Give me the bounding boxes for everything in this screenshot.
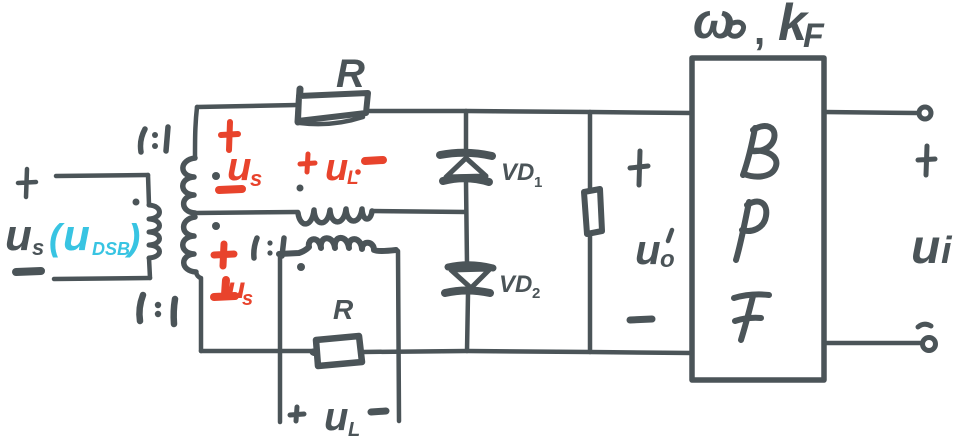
red minus upper [219, 189, 242, 190]
wire output bottom [824, 341, 920, 346]
svg-text:R: R [336, 52, 365, 96]
resistor R vertical [584, 189, 602, 234]
label ui [911, 221, 953, 274]
label VD2 [499, 271, 540, 302]
label F [734, 294, 769, 340]
transformer T1 secondary coil lower [183, 217, 196, 272]
svg-text:u: u [911, 221, 940, 274]
plus uo [630, 151, 648, 185]
wire bottom main left [201, 349, 313, 354]
wire source right vertical upper [148, 175, 149, 205]
source vs terminal minus [16, 271, 41, 272]
diode VD1 [440, 153, 492, 182]
wire diode branch top [464, 111, 469, 150]
wire center tap right [372, 211, 466, 212]
wire source right vertical lower [149, 258, 150, 278]
transformer T2 primary coil (uuu) [298, 209, 372, 224]
wire resistor branch top [588, 112, 593, 190]
resistor R bottom [313, 336, 362, 366]
svg-text:u: u [5, 211, 32, 260]
red plus upper secondary [221, 122, 238, 150]
BPF box [692, 58, 824, 380]
label uo' [635, 226, 675, 273]
diode VD2 [445, 265, 493, 293]
minus uL bottom [371, 411, 386, 412]
svg-text:u: u [325, 147, 348, 189]
transformer T2 secondary coil (mmm) [279, 238, 396, 254]
minus ui [918, 324, 931, 327]
wire source top [56, 175, 148, 176]
red minus middle [365, 160, 383, 161]
svg-text:R: R [333, 294, 354, 325]
terminal output bottom [923, 338, 936, 351]
label P [736, 202, 766, 260]
svg-text:L: L [348, 419, 360, 439]
transformer T1 secondary coil upper [183, 158, 195, 213]
terminal output top [919, 107, 931, 119]
source vs terminal plus [18, 169, 36, 197]
wire secondary bottom lead [196, 272, 201, 351]
plus uL bottom [290, 407, 304, 421]
svg-text:u: u [635, 226, 661, 273]
label uL bottom [324, 395, 360, 439]
wire top main right [369, 111, 692, 113]
wire uL branch left vertical [278, 254, 283, 422]
red plus lower secondary [214, 244, 234, 266]
wire source bottom [54, 278, 150, 279]
svg-text:s: s [32, 235, 44, 260]
polarity dot secondary lower [212, 222, 220, 230]
svg-text:o: o [660, 246, 675, 273]
svg-text:i: i [941, 230, 953, 272]
wire resistor branch bottom [588, 234, 593, 352]
wire bottom main right [362, 351, 692, 353]
svg-text:,: , [754, 9, 765, 53]
svg-text:u: u [63, 211, 90, 260]
wire diode middle [466, 182, 467, 264]
svg-text:VD: VD [499, 271, 532, 298]
svg-text:VD: VD [501, 159, 534, 186]
resistor R top [298, 89, 368, 124]
svg-text:ω: ω [693, 0, 735, 49]
wire secondary top lead [195, 107, 197, 158]
svg-text:u: u [324, 395, 348, 439]
label 1:1 middle [254, 238, 284, 258]
red label us upper [227, 145, 262, 191]
red label us lower [227, 272, 253, 310]
svg-text:u: u [227, 145, 251, 189]
wire center tap [195, 212, 298, 213]
wire diode branch bottom [467, 294, 468, 351]
wire output top [824, 112, 917, 113]
red label uL middle [325, 147, 361, 189]
svg-text:F: F [803, 17, 825, 55]
wire top main left [197, 105, 297, 107]
svg-text:s: s [242, 288, 253, 310]
transformer T1 primary coil [149, 205, 160, 258]
label w0 kF title [693, 0, 825, 55]
svg-text:s: s [250, 166, 262, 191]
wire uL branch right vertical [398, 251, 399, 421]
source label (uDSB) cyan [49, 211, 140, 260]
plus ui [918, 146, 935, 175]
minus uo [630, 319, 652, 320]
svg-text:1: 1 [534, 174, 542, 191]
label VD1 [501, 159, 542, 191]
svg-text:DSB: DSB [92, 239, 130, 259]
red plus middle [300, 154, 315, 172]
polarity dot mmm coil [297, 263, 305, 271]
label 1:1 bottom [139, 295, 175, 324]
polarity dot primary [133, 199, 140, 206]
polarity dot uuu coil [297, 185, 304, 192]
svg-text:2: 2 [532, 285, 540, 302]
label B [743, 126, 776, 176]
label 1:1 top [141, 127, 169, 152]
polarity dot secondary upper [212, 172, 220, 180]
source label us [5, 211, 44, 260]
